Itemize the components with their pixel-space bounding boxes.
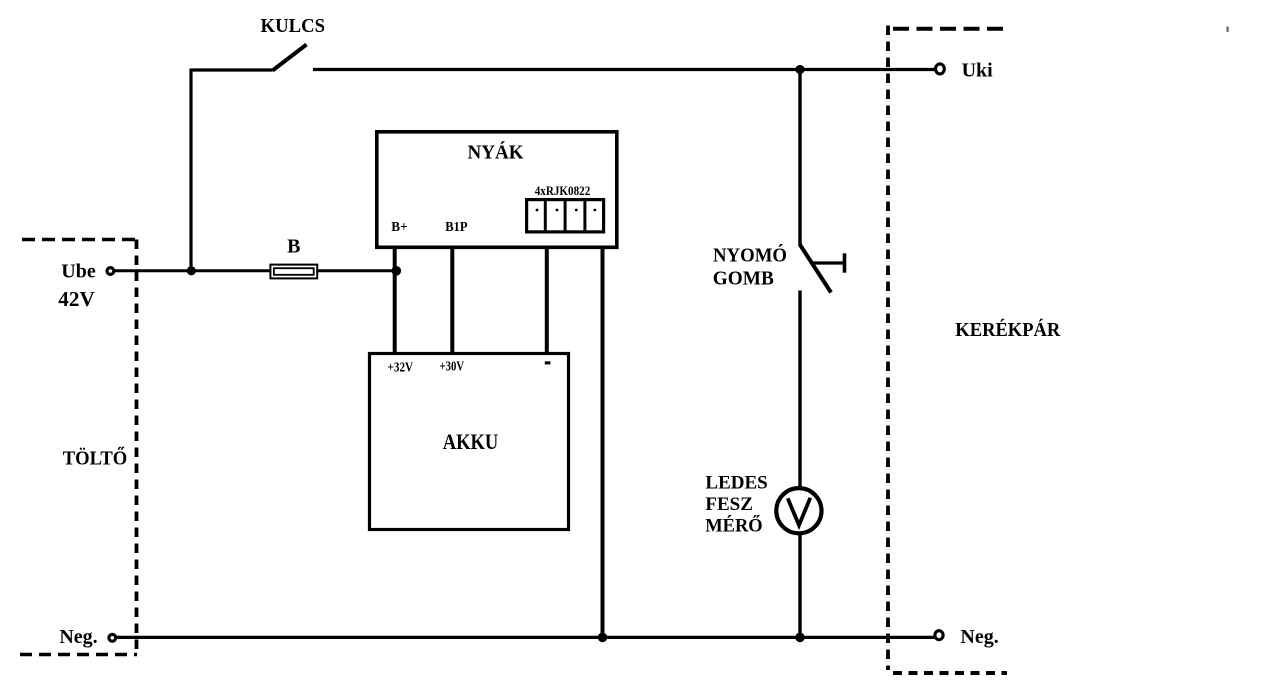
svg-text:+30V: +30V [440,359,465,374]
terminal Uki [936,64,945,74]
junction node B+ [392,266,402,276]
switch KULCS blade [273,45,307,71]
push-button actuator stem [812,261,843,264]
junction node top push-button [795,65,804,74]
voltmeter V glyph [788,498,811,525]
dashed enclosure TÖLTŐ (charger) [20,240,137,656]
push-button actuator bar [843,253,847,272]
connector 4xRJK0822 [527,199,604,232]
pin label minus [545,361,551,364]
svg-text:NYOMÓ: NYOMÓ [713,242,787,266]
terminal Neg. right [935,631,943,640]
svg-text:B: B [287,236,300,258]
wire bottom Neg. bus [117,636,935,639]
terminal Ube [107,268,114,275]
wire push-button to voltmeter [798,291,801,489]
svg-text:GOMB: GOMB [713,268,774,290]
box AKKU (battery) [370,354,569,530]
wire negative lead NYÁK to bottom bus [601,247,605,637]
box NYÁK (PCB) [377,132,617,248]
junction node key/main wire [187,266,196,275]
svg-text:B1P: B1P [445,220,468,235]
wire push-button branch upper [798,69,801,245]
svg-text:AKKU: AKKU [443,429,499,454]
voltmeter V circle [776,488,821,533]
junction node voltmeter / bus [795,633,805,643]
wire voltmeter to bottom bus [798,533,801,637]
svg-text:KERÉKPÁR: KERÉKPÁR [955,318,1061,341]
svg-text:TÖLTŐ: TÖLTŐ [63,445,128,469]
terminal Neg. left [109,634,116,641]
wire top from key switch node to fixed contact [191,68,273,71]
svg-text:NYÁK: NYÁK [468,141,524,164]
svg-text:Neg.: Neg. [59,626,97,648]
push-button NYOMÓ GOMB blade [800,244,832,293]
wire vertical feed from key switch down to main node [189,69,192,271]
wire main horizontal Ube to B+ node [114,269,397,272]
svg-text:Ube: Ube [61,260,96,282]
stray mark top right [1227,27,1229,33]
wire top right from switch to Uki terminal [313,68,935,71]
svg-text:B+: B+ [391,220,407,235]
svg-text:FESZ: FESZ [705,494,753,515]
svg-text:4xRJK0822: 4xRJK0822 [535,183,591,198]
fuse B [270,265,317,279]
svg-text:42V: 42V [58,287,95,311]
wire B+ lead NYÁK to AKKU [393,247,397,353]
svg-text:KULCS: KULCS [261,15,326,37]
dashed enclosure KERÉKPÁR (bicycle) [888,26,1007,674]
junction node negative lead / bus [598,633,608,643]
svg-text:+32V: +32V [388,360,414,375]
svg-text:LEDES: LEDES [705,473,767,494]
wire B1P lead NYÁK to AKKU [450,247,454,353]
svg-text:MÉRŐ: MÉRŐ [705,515,763,537]
svg-text:Neg.: Neg. [960,626,998,648]
svg-text:Uki: Uki [962,60,994,82]
wire minus lead NYÁK to AKKU [545,247,549,353]
